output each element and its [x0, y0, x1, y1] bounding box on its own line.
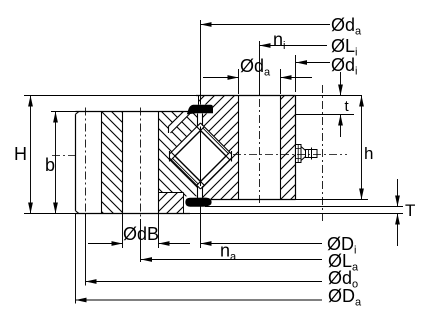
n_i arrowhead — [260, 43, 271, 48]
raceway surface line upper-left — [170, 123, 201, 154]
d_o extension line — [85, 214, 87, 286]
inner ring top lip hatch — [199, 96, 240, 106]
raceway corner relief lines left vertex — [171, 152, 175, 160]
outer ring web hatch between bolt hole zones — [102, 112, 123, 214]
n_i extension line — [259, 41, 261, 95]
dia d_o arrowhead — [86, 279, 97, 284]
dia D_i arrowhead — [201, 241, 212, 246]
inner ring bolt channel left wall — [238, 96, 240, 200]
svg-text:T: T — [405, 201, 415, 220]
seal groove step at outer ring top right — [187, 112, 189, 114]
h arrowheads — [359, 96, 364, 107]
b dimension line — [55, 112, 57, 214]
inner ring bottom face — [211, 199, 296, 201]
grease nipple base flange — [296, 145, 302, 163]
outer ring hatch patch above bottom seal — [184, 193, 199, 197]
dia d_a top arrowhead — [201, 22, 212, 27]
dia d_a small arrowheads — [228, 75, 239, 80]
raceway corner relief lines bottom vertex — [197, 182, 205, 186]
svg-text:b: b — [45, 155, 55, 175]
seal pocket white strip above top seal — [188, 105, 213, 114]
d_a small extension lines — [239, 69, 281, 94]
D_i extension line — [200, 207, 202, 249]
top seal (black) — [187, 105, 213, 115]
centerline: outer bolt hole axis dB — [140, 108, 142, 220]
roller contact line lower-left — [172, 158, 198, 184]
seal slot bottom walls — [198, 186, 203, 198]
outer ring lip split line — [159, 192, 184, 194]
dia d_i dimension line — [296, 62, 330, 64]
dia d_a small dimension line left segment — [203, 77, 239, 79]
raceway surface line lower-left — [170, 158, 201, 189]
outer ring left face — [75, 114, 77, 211]
n_a arrowhead — [141, 257, 152, 262]
n_a extension line — [140, 219, 142, 262]
bottom seal (black) — [185, 198, 211, 207]
t lower arrow shaft — [340, 115, 342, 138]
inner ring left band hatch — [203, 105, 239, 200]
h dimension line — [361, 96, 363, 200]
t upper arrow shaft — [340, 72, 342, 96]
T upper arrow shaft — [397, 179, 399, 207]
outer ring bottom face — [76, 213, 191, 215]
outer ring bottom-left chamfer — [76, 211, 80, 214]
outer ring web left wall — [101, 112, 103, 214]
raceway surface line upper-right — [201, 123, 232, 154]
outer ring right section hatch — [159, 112, 199, 193]
outer ring top face — [76, 111, 189, 113]
groove side wall at left vertex — [169, 151, 171, 162]
grease nipple base inner lines — [296, 145, 302, 163]
outer ring top-left chamfer — [76, 112, 80, 115]
svg-text:Ødi: Ødi — [331, 55, 357, 78]
H dimension line — [30, 96, 32, 214]
dia D_a arrowhead — [76, 298, 87, 303]
seal groove wedge upper-left boundary lines — [169, 112, 191, 134]
outer ring top face extension left for b — [51, 111, 76, 113]
dia dB right arrow shaft and dia D_i dimension line — [159, 243, 323, 245]
H arrowheads — [28, 96, 33, 107]
outer ring lower lip hatch — [159, 193, 184, 214]
centerline: roller axis short segment at left face — [52, 155, 78, 157]
T arrowheads — [395, 196, 400, 207]
inner ring bolt channel right wall — [280, 96, 282, 200]
dia d_i arrowhead — [296, 60, 307, 65]
d_i extension line — [295, 55, 297, 92]
centerline: auxiliary vertical axis right of section — [322, 85, 324, 222]
roller centerline vertical — [200, 127, 202, 187]
raceway channel gap around roller (white) — [170, 123, 232, 189]
raceway surface line lower-right — [201, 158, 232, 189]
grease nipple barrel check line — [308, 150, 310, 158]
n_a / dia L_a dimension line — [141, 259, 322, 261]
raceway corner relief lines right vertex — [226, 152, 230, 160]
groove side wall at right vertex — [231, 151, 233, 162]
centerline: grease nipple horizontal axis — [233, 154, 347, 156]
dia d_o dimension line — [86, 281, 323, 283]
inner ring bottom face extension (h anchor) — [296, 199, 369, 201]
svg-text:H: H — [14, 144, 27, 164]
raceway corner relief lines top vertex — [197, 127, 205, 131]
t arrowheads — [338, 85, 343, 96]
svg-text:h: h — [364, 144, 373, 163]
dia dB arrowheads — [112, 241, 123, 246]
grease nipple barrel — [306, 150, 312, 158]
outer ring bolt hole right wall — [158, 112, 160, 214]
bottom face extension line full width (H, b, T anchors) — [24, 213, 403, 215]
grease nipple tip — [312, 150, 318, 158]
dia d_a small dimension line right segment — [281, 77, 313, 79]
grease nipple shoulder cone — [301, 147, 306, 161]
dia d_a dimension line (top row) — [201, 24, 331, 26]
b arrowheads — [53, 112, 58, 123]
roller contact line upper-right — [203, 128, 229, 154]
inner ring top face — [196, 95, 296, 97]
n_i / dia L_i dimension line — [260, 45, 328, 47]
seal groove wedge upper-left (white) — [169, 112, 191, 134]
outer ring lip right edge — [183, 193, 185, 214]
dia dB left arrow shaft — [88, 243, 123, 245]
seal slot bottom (white) — [198, 187, 203, 199]
svg-text:ØdB: ØdB — [123, 224, 159, 244]
seal slot top (white) — [198, 114, 203, 126]
seal slot top walls — [198, 114, 203, 126]
inner ring top lip left face — [198, 96, 200, 105]
D_a extension line — [75, 214, 77, 304]
roller (diamond) — [175, 131, 226, 182]
dia D_a dimension line — [76, 299, 323, 301]
inner ring bore-side band hatch — [281, 96, 296, 200]
centerline: inner ring bolt circle L_i — [259, 99, 261, 203]
T lower arrow shaft — [397, 214, 399, 247]
grease nipple collar — [311, 148, 313, 160]
outer ring web right wall (bolt hole left wall) — [122, 112, 124, 214]
dia d_a raceway extension up — [200, 20, 202, 105]
inner ring lower rim line (T anchor) — [205, 206, 403, 208]
outer ring top face extension right for t — [296, 114, 354, 116]
dB extension lines — [123, 214, 159, 249]
centerline: outer ring bolt circle d_o — [85, 108, 87, 220]
inner ring top face extensions (H anchor left, t anchor right) — [24, 95, 362, 97]
inner ring bore face — [295, 96, 297, 200]
